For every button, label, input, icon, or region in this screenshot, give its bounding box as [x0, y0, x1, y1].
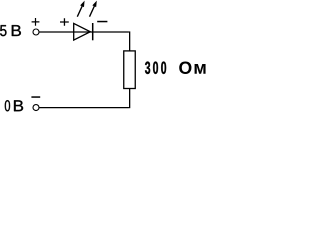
plus polarity mark at LED anode: [60, 18, 69, 26]
node 0V label: [5, 100, 23, 111]
LED emission arrow 2: [90, 1, 97, 17]
wire right vertical lower (resistor bottom down to corner): [129, 88, 131, 108]
LED emission arrow 1: [77, 1, 84, 17]
resistor value label 300 Ом: [145, 62, 206, 74]
wire bottom horizontal from corner to 0V terminal: [39, 107, 129, 109]
LED D1 triangle (anode): [74, 23, 91, 40]
wire top horizontal from 5V terminal through LED to corner: [39, 31, 129, 33]
resistor R1 body: [124, 51, 136, 89]
wire right vertical upper (corner down to resistor top): [129, 31, 131, 51]
plus polarity mark at 5V terminal: [32, 18, 40, 26]
node 5V label: [0, 25, 21, 36]
LED D1 cathode bar: [92, 23, 94, 40]
terminal circle 5V: [33, 29, 39, 35]
minus polarity mark at LED cathode: [97, 21, 107, 23]
minus polarity mark at 0V terminal: [31, 96, 40, 98]
terminal circle 0V: [33, 105, 39, 111]
